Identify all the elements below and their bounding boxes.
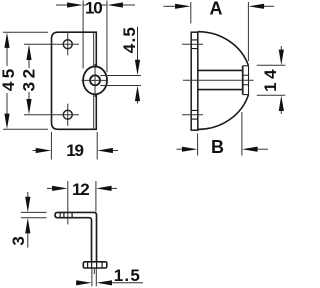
dimension 19 arrow right: [112, 150, 118, 152]
side view boss cylinder top line: [198, 69, 243, 71]
dimension A arrow right: [264, 5, 275, 7]
dimension 1.5 arrow left: [76, 282, 80, 284]
side view body flat face right: [248, 66, 250, 95]
dimension 10 arrow right: [123, 4, 136, 6]
side view hole bottom centerline: [182, 114, 203, 116]
hole H2 circle: [63, 110, 72, 119]
dimension 10 line stubs: [83, 4, 107, 6]
boss ellipse front view: [83, 66, 107, 94]
bottom view L profile: [55, 212, 96, 261]
svg-text:19: 19: [66, 141, 83, 160]
side view hole bottom edge lines: [191, 110, 198, 119]
dimension 12 arrow right: [111, 187, 117, 189]
side view body arc lower: [198, 95, 249, 130]
bottom view boss bar: [83, 262, 107, 268]
front plate right inner edge line: [93, 33, 95, 129]
dimension 14 extension line upper: [257, 64, 286, 66]
dimension 32 arrow up: [26, 44, 31, 60]
dimension 19 extension line right: [96, 132, 98, 160]
side view body arc upper: [198, 32, 249, 66]
dimension 10 arrow left: [56, 4, 68, 6]
bottom view hole edge tick 2: [63, 212, 65, 217]
dimension 12 arrow left: [47, 187, 53, 189]
dimension B arrow left: [177, 148, 184, 150]
boss centerline vertical: [94, 64, 96, 97]
svg-text:1.5: 1.5: [114, 266, 141, 285]
bottom view centerline below bar: [93, 268, 95, 274]
hole H2 centerline vertical: [67, 104, 69, 126]
svg-text:14: 14: [261, 66, 280, 92]
dimension 45 extension line top: [3, 31, 48, 33]
side view boss face hole lines: [243, 75, 249, 85]
hole H1 circle: [63, 40, 72, 49]
dimension B extension line right: [241, 112, 243, 156]
dimension 3 extension line lower: [21, 217, 47, 219]
dimension 14 arrow down: [280, 46, 282, 50]
side view hole top centerline: [182, 43, 203, 45]
dimension 19 arrow left: [33, 150, 38, 152]
svg-text:4.5: 4.5: [120, 26, 139, 53]
side view boss cylinder bottom line: [198, 89, 243, 91]
bottom view hole edge tick 3: [71, 212, 73, 217]
svg-text:12: 12: [72, 180, 89, 199]
side view boss face top cap: [243, 65, 249, 67]
dimension 32 line lower: [28, 92, 30, 100]
dimension 1.5 extension line left: [91, 269, 93, 287]
dimension 45 line lower: [6, 93, 8, 115]
dimension 3 arrow up: [27, 233, 29, 248]
dimension 14 extension line lower: [257, 94, 286, 96]
svg-text:10: 10: [85, 0, 102, 18]
bottom view hole edge tick 1: [59, 212, 61, 217]
dimension 4.5 extension line upper: [100, 74, 141, 76]
svg-text:B: B: [211, 137, 224, 157]
front view plate outline: [52, 32, 97, 129]
side view plate: [191, 32, 198, 130]
dimension B extension line left: [197, 134, 199, 156]
svg-text:A: A: [210, 0, 223, 19]
hole H1 centerline horizontal: [57, 43, 79, 45]
dimension 12 extension line left and hole centerline: [67, 181, 69, 224]
dimension A extension line left: [190, 2, 192, 24]
dimension 1.5 arrow right with line: [109, 282, 144, 284]
side view hole top edge lines: [191, 40, 198, 49]
svg-text:32: 32: [19, 65, 38, 91]
hole H1 centerline vertical: [67, 33, 69, 55]
dimension 32 extension line top: [24, 43, 57, 45]
dimension A arrow left: [164, 5, 177, 7]
side view boss face bottom cap: [243, 94, 249, 96]
side view boss centerline: [183, 79, 254, 81]
bottom view boss bar hole tick left: [87, 262, 89, 268]
dimension 3 arrow down: [27, 192, 29, 197]
dimension B arrow right: [257, 148, 268, 150]
dimension 32 line upper: [28, 59, 30, 68]
bottom view boss bar hole tick right: [101, 262, 103, 268]
dimension A extension line right: [247, 2, 249, 61]
dimension 45 line upper: [6, 47, 8, 66]
svg-text:3: 3: [9, 237, 28, 246]
dimension 10 extension line left: [82, 1, 84, 69]
dimension 32 arrow down: [26, 99, 31, 115]
boss hole circle: [90, 75, 100, 85]
dimension 4.5 extension line lower: [100, 84, 141, 86]
dimension 19 extension line left: [50, 132, 52, 160]
dimension 45 extension line bottom: [3, 128, 48, 130]
dimension 45 arrow down: [4, 114, 9, 130]
hole H2 centerline horizontal: [57, 114, 79, 116]
dimension 12 extension line right: [95, 181, 97, 212]
dimension 45 arrow up: [4, 32, 9, 48]
dimension 4.5 arrow down: [137, 27, 139, 61]
boss centerline horizontal: [82, 79, 108, 81]
dimension 32 extension line bottom: [24, 114, 57, 116]
dimension 4.5 arrow up: [137, 101, 139, 104]
dimension 10 extension line right: [106, 1, 108, 73]
side view boss face left vertical: [242, 66, 244, 95]
bottom view boss bar arm tick 2: [96, 262, 98, 268]
svg-text:45: 45: [0, 65, 18, 91]
dimension 1.5 extension line right: [95, 269, 97, 287]
bottom view boss bar arm tick 1: [91, 262, 93, 268]
dimension 3 extension line upper: [21, 211, 47, 213]
dimension 14 arrow up: [280, 111, 282, 115]
